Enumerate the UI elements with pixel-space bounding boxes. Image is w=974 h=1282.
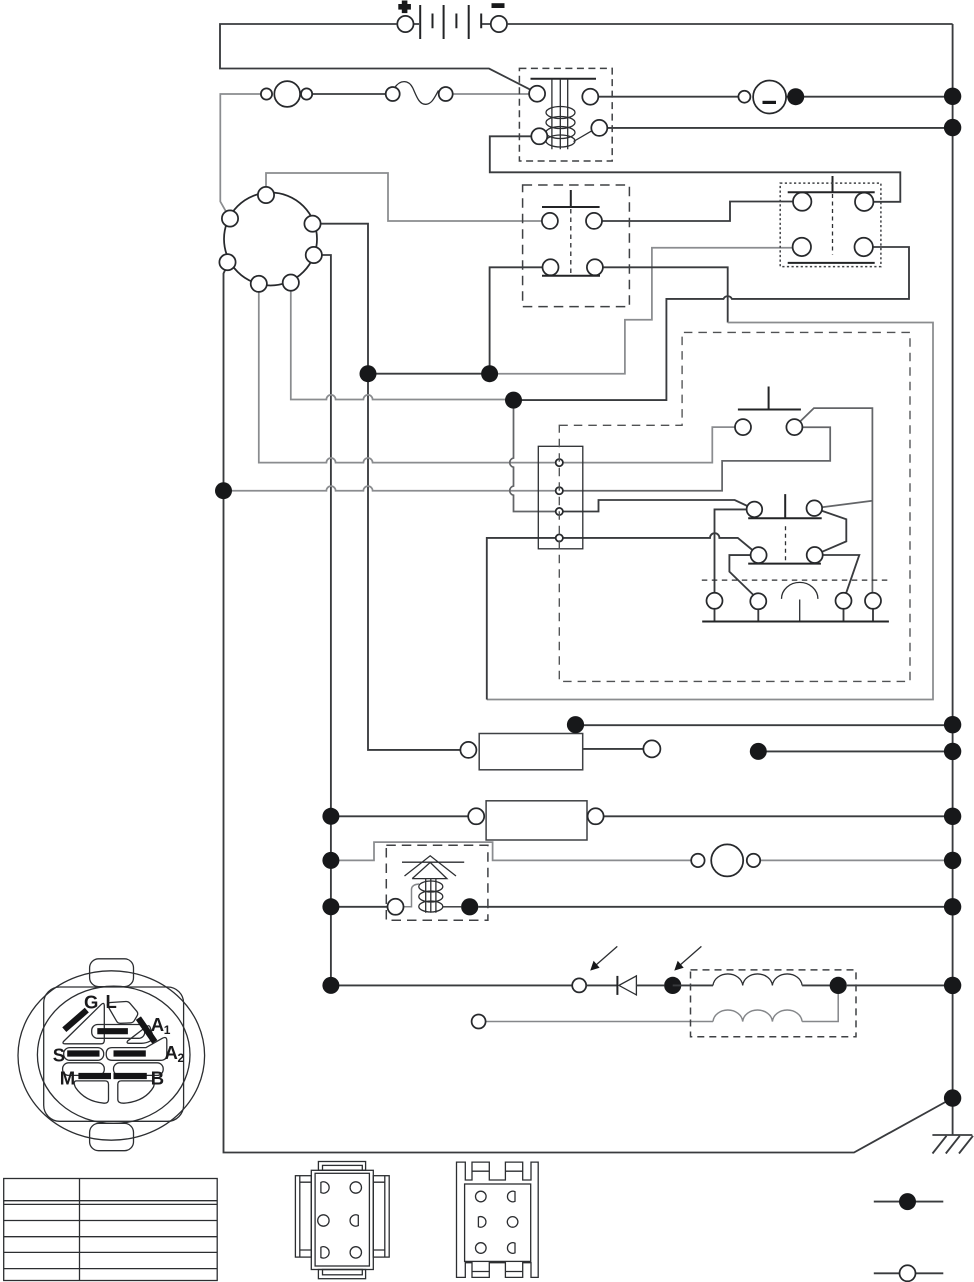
wire pin3 to ignition contact A-left <box>559 500 747 512</box>
solenoid coil terminal left <box>531 128 547 144</box>
svg-text:M: M <box>60 1067 75 1088</box>
junction dot bus row 907 <box>944 898 961 915</box>
clutch/brake switch contact bottom-right <box>587 259 603 275</box>
4-pin connector pin3 <box>556 508 563 515</box>
wiring legend table <box>4 1179 218 1281</box>
svg-text:A: A <box>151 1014 164 1035</box>
wire ammeter connector to fuse <box>312 93 386 95</box>
wire fuel solenoid to open terminal <box>583 748 644 750</box>
junction dot starter to bus <box>787 88 804 105</box>
junction dot diode output <box>664 977 681 994</box>
connector plug 6-pin left <box>295 1162 389 1279</box>
junction dot bus ground node <box>944 1089 961 1106</box>
wire ground pad to bus row 751 <box>758 750 952 752</box>
4-pin connector body <box>538 446 583 549</box>
wire pin1 to key button left contact <box>559 427 735 463</box>
ignition switch contact A-left <box>747 502 763 518</box>
wire loop up to pin4 <box>487 538 560 700</box>
wire key connector bottom-right pin to junction <box>291 291 514 400</box>
wire key connector top pin to clutch switch <box>266 173 542 221</box>
ignition switch common bar <box>702 621 889 623</box>
junction dot bus row 128 <box>944 119 961 136</box>
wire fuse to solenoid <box>453 93 529 95</box>
junction dot fuel solenoid case <box>567 716 584 733</box>
arrow at junction <box>674 946 701 970</box>
4-pin connector pin2 <box>556 487 563 494</box>
4-pin connector pin4 <box>556 534 563 541</box>
inline connector small-big-small <box>691 844 760 876</box>
key connector pin lower-right <box>306 247 322 263</box>
magneto internals spark plug <box>402 856 464 913</box>
key connector pin top <box>258 187 274 203</box>
wire magneto to bus <box>478 906 952 908</box>
solenoid terminal battery side <box>529 86 545 102</box>
wire left bus over coil box to inline connector <box>331 842 691 860</box>
key face cavity S left slot <box>64 1048 104 1061</box>
key connector pin bottom-left <box>251 276 267 292</box>
wire left bus to 4-pin connector pin2 <box>224 486 560 491</box>
PTO switch contact top-left <box>793 192 811 210</box>
wire left bus to hourmeter <box>331 815 468 817</box>
clutch/brake switch actuator <box>542 190 600 276</box>
key face cavity bottom right fan <box>118 1081 154 1103</box>
wire PTO lower-right contact loop to junction <box>514 247 910 400</box>
wire left bus to headlight plug <box>331 984 572 986</box>
key face cavity center slot <box>92 1025 145 1039</box>
connector small-big-small (ammeter) <box>261 81 312 107</box>
wire pad stubs to common bar <box>715 609 874 622</box>
ignition switch contact B-right <box>807 547 823 563</box>
clutch/brake switch box <box>523 185 630 307</box>
wire battery negative to right bus <box>507 23 953 25</box>
magneto box <box>386 845 488 920</box>
wire headlight junction to bus <box>847 984 953 986</box>
wire junction down to 4-pin connector pin3 <box>510 400 560 511</box>
ignition switch pad c2 <box>750 593 766 609</box>
ground symbol <box>932 1135 973 1154</box>
wire gray feed from ammeter connector to key connector <box>220 94 261 212</box>
junction dot bus row 751 <box>944 743 961 760</box>
battery plus label <box>398 1 411 14</box>
PTO switch contact bottom-left <box>793 238 811 256</box>
hourmeter terminal left <box>468 808 484 824</box>
PTO switch contact top-right <box>855 193 873 211</box>
wire left bus to magneto <box>331 906 388 908</box>
ignition switch key button <box>735 387 802 436</box>
ignition switch contact B-left <box>751 547 767 563</box>
key connector pin lower-left <box>219 254 235 270</box>
4-pin connector pin1 <box>556 459 563 466</box>
wire solenoid coil ground loop to PTO switch <box>490 136 901 202</box>
headlight coil bottom <box>713 1010 802 1021</box>
wire contact B-right to pad c3 <box>823 555 860 593</box>
wire diode to junction <box>636 984 664 986</box>
key connector pin upper-right <box>304 216 320 232</box>
key face terminal bar S right <box>114 1050 146 1056</box>
diode D1 <box>617 976 636 995</box>
wire contact A-right to contact B-right link <box>822 511 847 552</box>
key face cavity S right slot with A2 hook <box>106 1037 167 1060</box>
magneto terminal <box>388 899 404 915</box>
ignition switch assembly box <box>559 332 910 681</box>
wire key connector lower-right pin down left-middle bus <box>322 255 331 985</box>
headlight coil top <box>713 974 802 985</box>
key face terminal bar S left <box>67 1050 99 1056</box>
junction dot left bus 907 <box>322 898 339 915</box>
key face terminal bar A1 <box>138 1018 154 1042</box>
solenoid S1 internals <box>531 79 597 150</box>
wire coil to junction dot right <box>802 984 838 986</box>
svg-text:G: G <box>84 992 98 1013</box>
hourmeter box <box>486 801 587 840</box>
PTO switch actuator <box>788 176 875 263</box>
clutch/brake switch contact top-left <box>542 213 558 229</box>
key connector pin bottom-right <box>283 275 299 291</box>
junction dot left bus 860 <box>322 852 339 869</box>
key face terminal bar G <box>64 1010 87 1030</box>
key connector pin upper-left <box>222 210 238 226</box>
arrow at headlight plug <box>590 946 617 970</box>
key face cavity right wing <box>127 1026 153 1044</box>
wire key connector bottom-left pin to 4-pin connector pin1 <box>259 292 560 463</box>
ignition switch pad c4 <box>865 593 881 609</box>
hourmeter terminal right <box>588 808 604 824</box>
headlight return terminal <box>472 1015 486 1029</box>
wire ground bus left side <box>224 269 946 1152</box>
junction dot left bus 816 <box>322 808 339 825</box>
key face cavity lower right slot <box>114 1063 164 1076</box>
wire junction to PTO lower-left contact <box>490 248 793 374</box>
wire starter motor row <box>598 96 738 98</box>
solenoid switched terminal right <box>591 120 607 136</box>
junction dot node 490-374 <box>481 365 498 382</box>
junction dot bus row 725 <box>944 716 961 733</box>
key face terminal bar B <box>114 1073 147 1079</box>
svg-text:2: 2 <box>178 1051 185 1065</box>
wire coil to headlight return terminal <box>486 1021 713 1023</box>
wire headlight return loop <box>802 985 838 1021</box>
junction dot headlight to bus <box>830 977 847 994</box>
wire key connector upper-right pin down the middle <box>321 224 461 750</box>
wire contact A-left to pad c1 <box>715 509 747 592</box>
battery B1 <box>397 5 507 39</box>
ignition switch actuator A-B <box>748 494 822 563</box>
headlight plug terminal <box>572 978 586 992</box>
fuel solenoid box <box>479 734 583 770</box>
junction dot node 514-400 <box>505 392 522 409</box>
wire starter motor to bus <box>786 96 953 98</box>
wire branch to contact A-right <box>822 501 872 507</box>
svg-text:A: A <box>165 1042 178 1063</box>
svg-text:B: B <box>151 1067 164 1088</box>
wire inline connector to bus <box>760 859 953 861</box>
clutch/brake switch contact top-right <box>586 213 602 229</box>
battery minus label <box>492 3 505 8</box>
ignition switch pad c1 <box>707 593 723 609</box>
wire contact B-left to pad c2 <box>729 555 753 595</box>
wire junction into headlight coil <box>673 984 713 986</box>
clutch/brake switch contact bottom-left <box>543 259 559 275</box>
solenoid box <box>519 68 612 161</box>
junction dot bus row 985 <box>944 977 961 994</box>
starter motor M1 <box>738 81 786 114</box>
junction dot bus row 96 <box>944 88 961 105</box>
wire right bus <box>952 24 954 1135</box>
key switch face plate <box>18 959 205 1151</box>
key face terminal bar M <box>78 1073 111 1079</box>
ignition switch rotor separator <box>702 579 891 581</box>
junction dot left bus pin2 branch <box>215 482 232 499</box>
wire pin4 to ignition contact B-left <box>559 533 752 550</box>
junction dot node 368-374 <box>360 365 377 382</box>
PTO switch contact bottom-right <box>855 238 873 256</box>
circular key switch connector body <box>224 193 317 286</box>
connector plug 6-pin right <box>457 1162 539 1277</box>
junction dot bus row 860 <box>944 852 961 869</box>
svg-text:L: L <box>106 991 117 1012</box>
key face cavity L slot <box>107 1001 137 1023</box>
svg-text:S: S <box>53 1044 65 1065</box>
legend open terminal symbol <box>874 1265 944 1281</box>
junction dot magneto output <box>461 898 478 915</box>
wire clutch lower-right contact big loop to 4-pin connector pin4 <box>603 267 728 322</box>
junction dot left bus 985 <box>322 977 339 994</box>
wire clutch lower-left contact to junction <box>490 267 543 373</box>
key face cavity G triangle <box>63 1003 104 1043</box>
solenoid terminal starter side <box>582 89 598 105</box>
junction dot bus row 816 <box>944 808 961 825</box>
fuse F1 <box>386 82 453 105</box>
wire fuel solenoid case to bus <box>576 724 953 726</box>
wire loop right side gray <box>487 323 933 700</box>
wire pin2 to key button right contact <box>559 427 830 490</box>
fuel solenoid open terminal right <box>643 740 660 757</box>
ignition switch contact A-right <box>807 500 823 516</box>
wire key button feed down to contact A-right and wiper pad <box>800 408 872 593</box>
ignition switch wiper <box>782 582 818 621</box>
key face terminal bar L center <box>97 1028 128 1034</box>
wire clutch switch to PTO switch <box>602 202 793 222</box>
wire battery positive to solenoid stud <box>220 24 531 90</box>
ignition switch pad c3 <box>836 593 852 609</box>
svg-text:1: 1 <box>164 1023 171 1037</box>
wire hourmeter to bus <box>604 815 953 817</box>
headlight box <box>691 970 857 1037</box>
legend solid junction symbol <box>874 1193 944 1210</box>
wire plug to diode <box>586 984 617 986</box>
PTO switch box <box>780 183 881 267</box>
key face cavity lower left slot <box>63 1063 105 1076</box>
fuel solenoid terminal left <box>460 742 476 758</box>
junction dot ground pad row <box>750 743 767 760</box>
key face cavity bottom left fan <box>74 1081 108 1103</box>
wire solenoid contact to bus <box>607 127 952 129</box>
wire junction row 374 <box>368 373 490 375</box>
